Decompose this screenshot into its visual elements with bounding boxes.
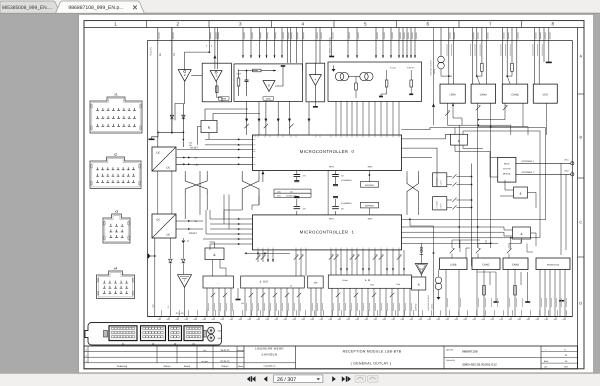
wire U4 output [175,81,185,120]
tab close button [133,5,137,9]
svg-text:x4: x4 [114,266,118,270]
svg-text:Ident-Nr.: Ident-Nr. [446,348,454,351]
svg-text:CURRENT SOURCE: CURRENT SOURCE [430,59,433,76]
svg-text:7mm: 7mm [370,284,375,287]
wire micro0 input b [205,138,253,140]
wire cab.1 to rail [154,256,156,317]
input gate U17 [328,275,411,288]
op-amp U5a [210,71,222,82]
2-track switch box S1 [433,173,447,187]
and gate U18 [451,134,468,145]
svg-text:DMG: DMG [266,98,271,101]
resistor R8 on CANA stub [481,63,484,71]
strip connector x1 [109,326,137,341]
bus wires U18 out [455,128,540,152]
svg-text:C: C [579,220,582,224]
out gate U15 [241,276,305,288]
svg-text:D: D [579,301,582,305]
ground G2 [154,238,156,256]
zener diode D3 [169,238,171,259]
svg-text:8: 8 [551,22,554,27]
svg-text:SPI1: SPI1 [329,166,335,169]
ground G1 [152,132,159,139]
feed wire straight down [433,226,435,317]
transceiver box L5RA [440,84,465,103]
amp switched output wire [418,290,420,317]
transceiver box CANC [472,258,500,270]
micro0 top pin ticks [255,135,399,137]
svg-text:CURRENT SOURCE: CURRENT SOURCE [427,294,430,311]
switch marks on output wires [211,293,215,297]
svg-text:-X3_..X2_: -X3_..X2_ [175,312,186,315]
crystal Y3 [296,211,298,215]
right bus vertical wires [540,128,566,256]
transformer T1 [335,72,343,80]
svg-text:Name: Name [238,365,244,368]
supply arrow into DC1 [182,132,184,140]
svg-text:(CHANNEL): (CHANNEL) [341,202,352,205]
comparator box U5 [202,63,231,102]
svg-text:TOOTH: TOOTH [503,168,511,171]
drawing title cell [295,346,297,369]
wires into bluetooth [490,152,498,178]
wires below CANC with resistor R10 [477,270,496,317]
resistor R5 [355,83,358,90]
svg-text:2-TRACK: 2-TRACK [436,200,439,208]
tab bar background [0,0,600,14]
svg-text:x2: x2 [114,152,118,156]
svg-text:EHINGEN: EHINGEN [262,353,278,357]
ident number cell [443,346,445,369]
svg-text:CURRENT SOURCE: CURRENT SOURCE [329,36,332,56]
op-amp U7a [309,75,321,86]
svg-text:26 / 307: 26 / 307 [277,377,296,383]
svg-text:DMG: DMG [221,98,226,101]
wires below RS422 [540,270,565,317]
svg-text:(CHANNEL): (CHANNEL) [341,179,352,182]
nav next page button [332,376,336,382]
svg-text:Datum: Datum [164,365,171,368]
nav last page button [342,376,345,382]
svg-text:SPI1: SPI1 [329,218,335,221]
svg-text:CANA: CANA [480,94,487,97]
svg-text:B: B [580,135,583,139]
svg-text:Name: Name [184,365,191,368]
signal name labels bottom left [208,303,411,311]
input filter box U6 [234,64,303,102]
wire micro0 input a [205,144,253,146]
resistor box U16 [308,276,324,288]
ground in U6 [282,66,284,71]
svg-text:1s: 1s [290,285,292,288]
svg-text:LIGHT: LIGHT [440,202,443,208]
svg-text:3385+932.03.00.001-012: 3385+932.03.00.001-012 [462,362,497,366]
top connector pin stubs -X1/-X2 [158,28,549,148]
svg-text:ANTENNA 2: ANTENNA 2 [522,171,536,174]
isolation box U8 with transformers [328,62,422,101]
svg-text:RS422/I/YDA: RS422/I/YDA [547,264,560,267]
svg-text:Blatt: Blatt [544,360,548,363]
capacitor C1 [245,79,249,81]
switch common wire [471,164,473,267]
svg-text:Zeichn-Nr.: Zeichn-Nr. [446,359,456,362]
switches on sense lines [244,124,248,128]
svg-text:rev.: rev. [203,349,207,352]
bus from CAN boxes to micro [447,118,528,127]
crystal Y2 [335,171,337,175]
amp output into gate U23 [420,275,422,278]
logic box U14 [203,276,234,288]
ground bar on stub [329,56,334,58]
op-amp U6a [263,81,275,92]
eeprom U9 [360,182,378,188]
resistor R2 [216,86,219,93]
frame row letter band [577,28,579,369]
crystal Y4 [335,211,337,215]
svg-text:P.1: P.1 [167,306,170,308]
connector strip housing [85,323,222,346]
company cell [243,346,245,369]
wires gates to bottom rail [207,288,410,317]
labels under rail [157,318,565,320]
transformer T2 [360,72,368,80]
twisted pair X4 right [406,171,408,176]
twisted pair X3 [241,171,243,175]
and gate U21 [513,227,531,239]
connector x2 pins [96,170,135,183]
micro1 bottom pin ticks [258,248,399,250]
bottom rail line [148,316,573,318]
and gate U23 [412,277,426,290]
svg-text:& IN: & IN [365,279,371,282]
svg-text:CAND: CAND [512,264,519,267]
svg-text:....: .... [217,283,220,285]
svg-text:&: & [418,283,420,287]
pdf page [79,14,594,372]
svg-text:DC: DC [167,167,171,170]
svg-text:1Hem: 1Hem [342,279,348,282]
nav previous page button [264,376,268,382]
transceiver box CAND [503,258,528,270]
drawing frame outer border [84,21,584,369]
connector x4 pins [103,283,128,293]
connector x1 pins [96,111,136,127]
svg-text:LIEBHERR WERK: LIEBHERR WERK [255,346,284,350]
micro1 left input wires [210,219,253,244]
resistor R9 on CANB stub [511,63,514,71]
wire node to U4 [208,51,210,53]
ground on VCC stub [546,61,552,63]
microcontroller U0 [253,135,402,171]
wire 5v output [176,157,253,159]
zener diode D2 branch [182,104,184,132]
svg-text:01.04.14: 01.04.14 [221,360,231,363]
title block outline [84,346,578,369]
svg-text:x3: x3 [115,209,119,213]
rail 5v distribution [245,252,290,254]
ground arrow in U8 [333,66,335,70]
strip connector x3 [169,326,182,341]
svg-text:Änderung: Änderung [117,365,128,368]
and gate U20 [514,187,528,198]
frame column header band [84,27,584,29]
current source CS1 [438,270,440,278]
svg-text:7: 7 [489,22,492,27]
ground G3 [237,288,239,299]
nav history back button disabled [355,375,366,382]
diode D4 with flow arrow [182,238,184,240]
and gate U3 [201,120,217,132]
top pin number labels [159,32,550,39]
op-amp U4 freestanding [178,70,191,82]
svg-text:986887108: 986887108 [462,349,478,353]
svg-text:& OUT: & OUT [260,280,269,283]
rails DC1 to DC2 [157,171,159,214]
signal name labels top right [447,44,542,56]
svg-text:1: 1 [114,22,117,27]
svg-text:2-TRACK: 2-TRACK [436,177,439,185]
wires below U6 to micro0 [258,101,260,135]
svg-text:Datum: Datum [222,365,229,368]
signal labels bottom right [447,298,566,307]
interface box RS422 [536,258,570,270]
svg-text:986887108_999_EN.p...: 986887108_999_EN.p... [68,5,123,11]
svg-text:L5BB: L5BB [450,264,457,267]
svg-text:EEPROM: EEPROM [365,184,374,187]
svg-text:L5RA: L5RA [449,94,456,97]
active tab 986887108 [56,1,145,13]
svg-text:T16+17: T16+17 [407,67,415,70]
svg-text:cab.1: cab.1 [152,304,155,308]
svg-text:3: 3 [239,22,242,27]
transceiver box CANA [471,84,496,103]
zener diode D1 on B+ branch [171,28,173,133]
resistor R4 horizontal [253,69,262,72]
twisted pair X1 [184,171,186,175]
micro1 to gates wires [258,250,404,276]
junction rail above DC1 [158,131,183,133]
nav page number box [274,375,323,383]
switch block SW1 [274,189,311,193]
current source CS2 [440,28,442,57]
svg-text:BLUE: BLUE [504,163,510,166]
connector x1 housing [90,97,142,133]
connector x3 housing [103,214,130,243]
arrow up into micro0 [262,171,264,182]
svg-text:AMP.SW: AMP.SW [414,303,417,311]
dc-dc converter U2 [152,147,176,171]
svg-text:&: & [520,232,522,236]
svg-text:von: von [544,366,547,369]
svg-text:6: 6 [426,22,429,27]
label DMG U5 [219,97,230,100]
micro1 right bus wires [402,125,546,248]
microcontroller U1 [253,215,402,250]
wires below CAN boxes [447,103,546,135]
dc-dc converter U11 [152,214,176,238]
connector x3 pins [109,226,123,237]
svg-text:7ms: 7ms [396,283,400,286]
svg-text:SPI2: SPI2 [368,218,374,221]
svg-text:DC: DC [157,152,161,155]
svg-text:CANC: CANC [482,264,489,267]
svg-text:VCR: VCR [543,94,549,97]
transceiver box CANB [502,84,527,103]
wire between crystals [327,171,329,215]
svg-text:RESET: RESET [189,232,198,235]
svg-text:CANB: CANB [511,94,518,97]
svg-text:985385008_999_EN....: 985385008_999_EN.... [2,5,52,11]
wire straight through [199,171,201,215]
svg-text:DOWNLOAD: DOWNLOAD [286,195,297,198]
strip mounting lug right [203,331,207,338]
strip mounting lug left [104,331,108,338]
svg-text:DC: DC [167,234,171,237]
strip connector x2 [141,326,166,341]
bluetooth module U19 [498,157,516,182]
svg-text:MICROCONTROLLER 1: MICROCONTROLLER 1 [300,230,355,235]
svg-text:SW1: SW1 [277,195,281,198]
op-amp U12 [178,275,192,288]
junction dots top [448,75,450,77]
svg-text:( GENERAL OUTLAY ): ( GENERAL OUTLAY ) [351,362,392,366]
switches below micro1 [256,255,260,259]
wires U8 to micro0 [335,101,337,135]
strip connector x4 [184,326,203,341]
connector x4 housing [97,271,135,299]
svg-text:150MA: 150MA [430,303,433,309]
inactive tab 985385008 [0,1,60,13]
amplifier U22 [420,243,422,263]
resistor R3 vertical [237,78,240,86]
svg-text:LIGHT: LIGHT [440,179,443,185]
svg-text:T1.15: T1.15 [390,67,396,70]
regulator box VCR [533,84,557,103]
svg-text:+UB_V1: +UB_V1 [150,46,153,56]
svg-text:EEPROM: EEPROM [365,205,374,208]
svg-text:B+: B+ [159,52,162,56]
feed line with up arrow [433,28,435,126]
wires below CAND with resistor R11 [508,270,528,317]
bottom navigation bar [0,374,600,386]
wire L5v output [176,163,253,165]
horizontal bus lines to micro0 top [511,125,528,135]
sheet number cell [540,346,542,369]
2-track switch box S2 [433,197,447,210]
svg-text:neu gez.: neu gez. [201,360,209,363]
svg-text:JW: JW [241,302,244,305]
svg-text:5: 5 [364,22,367,27]
micro0 left pin labels [253,139,255,164]
wire RESET to microcontroller 0 [177,149,253,151]
nav first page button [247,376,252,382]
connector x2 housing [90,157,141,189]
bottom rail pin labels [162,310,567,315]
wires DC2 outputs [176,220,203,222]
wire from U3 down to M0 area [198,127,202,145]
resistor R6 [385,80,388,87]
module boundary box [148,41,573,317]
svg-text:&: & [519,192,521,196]
svg-text:ANTENNA 1: ANTENNA 1 [522,160,536,163]
ground below U7 [314,102,316,107]
and gate U13 [205,248,224,260]
svg-text:MICROCONTROLLER 0: MICROCONTROLLER 0 [300,149,355,154]
strip antenna jacks XA1 XA2 [208,327,215,334]
wires U3 to bus [205,109,248,120]
switches above boxes [450,249,454,253]
buffer box U7 [306,63,325,102]
nav history forward button disabled [368,375,379,382]
bottom rail pin ticks [160,317,565,320]
transceiver box L5BB [440,258,467,270]
svg-text:26.02.14: 26.02.14 [221,349,231,352]
svg-text:DC: DC [157,219,161,222]
wires U7 to micro0 [308,102,310,135]
svg-text:4: 4 [301,22,304,27]
eeprom U10 [360,202,378,208]
resistor R7 [410,80,413,87]
flow arrow on comparator feed [213,55,216,58]
svg-text:MODUL: MODUL [503,173,512,176]
svg-text:SPI2: SPI2 [368,166,374,169]
bus wires micro0 right [402,128,546,187]
svg-text:Copyright GJ: Copyright GJ [264,365,276,368]
svg-text:2: 2 [176,22,179,27]
wire to crossover X3 [246,101,248,135]
revision table [84,351,244,353]
crystal Y1 [296,171,298,175]
svg-text:RECEPTION MODULE LSB-BTB: RECEPTION MODULE LSB-BTB [343,350,402,354]
label DMG U6 [263,97,274,100]
svg-text:A: A [580,54,583,58]
svg-text:Jvb: Jvb [187,240,190,243]
switch contacts right [447,176,452,178]
wires below L5BB [446,270,459,317]
svg-text:OUT: OUT [237,73,242,76]
svg-text:RESET: RESET [191,147,200,150]
svg-text:x1: x1 [114,92,118,96]
